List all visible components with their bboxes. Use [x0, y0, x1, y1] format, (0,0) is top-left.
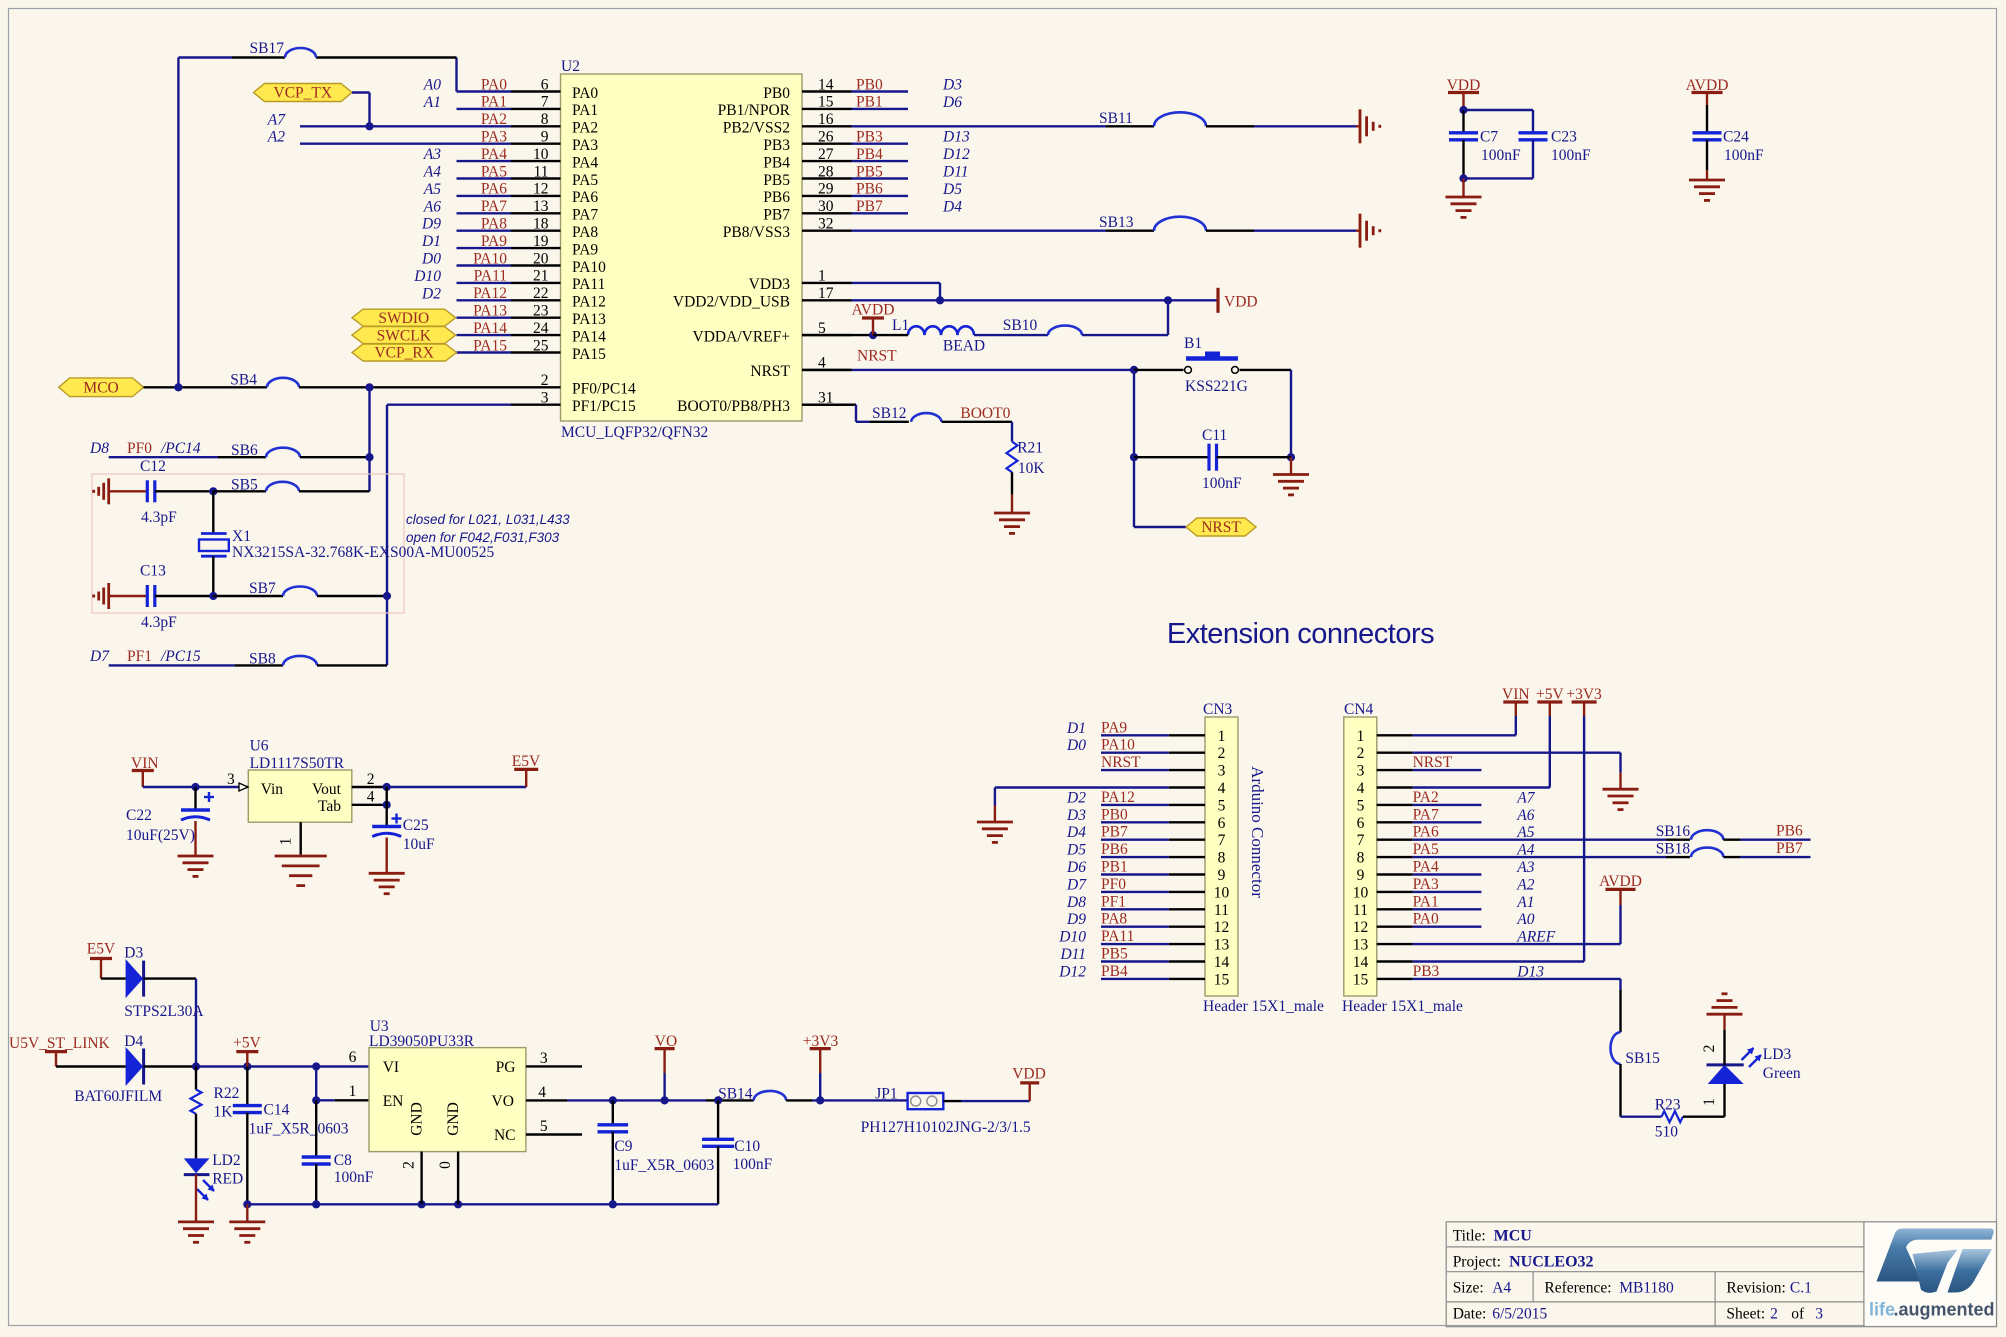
svg-text:+5V: +5V	[233, 1035, 261, 1052]
svg-text:PF0/PC14: PF0/PC14	[572, 381, 636, 398]
svg-text:PA8: PA8	[1101, 911, 1127, 928]
svg-text:100nF: 100nF	[733, 1156, 773, 1173]
svg-text:PA12: PA12	[572, 294, 606, 311]
svg-text:1: 1	[1218, 728, 1226, 745]
svg-text:LD1117S50TR: LD1117S50TR	[250, 755, 345, 772]
svg-text:Vin: Vin	[261, 781, 284, 798]
svg-text:10: 10	[533, 146, 549, 163]
svg-text:PA1: PA1	[572, 102, 598, 119]
svg-text:5: 5	[1357, 797, 1365, 814]
svg-text:4: 4	[1218, 780, 1226, 797]
svg-text:D9: D9	[421, 216, 441, 233]
svg-text:NRST: NRST	[1201, 519, 1241, 536]
svg-text:27: 27	[818, 146, 834, 163]
svg-text:Header 15X1_male: Header 15X1_male	[1203, 998, 1324, 1015]
svg-text:2: 2	[1357, 745, 1365, 762]
svg-text:D7: D7	[1066, 876, 1087, 893]
svg-text:D13: D13	[942, 129, 970, 146]
svg-text:Tab: Tab	[318, 798, 341, 815]
svg-text:1: 1	[1357, 728, 1365, 745]
svg-text:B1: B1	[1184, 335, 1202, 352]
svg-text:D6: D6	[942, 94, 962, 111]
svg-text:12: 12	[1353, 919, 1369, 936]
svg-text:PB4: PB4	[763, 154, 790, 171]
svg-text:SB14: SB14	[718, 1086, 753, 1103]
svg-text:8: 8	[541, 111, 549, 128]
svg-text:BOOT0/PB8/PH3: BOOT0/PB8/PH3	[677, 398, 790, 415]
svg-text:PB8/VSS3: PB8/VSS3	[723, 224, 790, 241]
svg-text:1uF_X5R_0603: 1uF_X5R_0603	[249, 1121, 349, 1138]
svg-text:VDD: VDD	[1224, 293, 1258, 310]
svg-text:100nF: 100nF	[1551, 147, 1591, 164]
svg-text:U2: U2	[561, 58, 580, 75]
svg-text:PA9: PA9	[1101, 719, 1127, 736]
svg-text:D4: D4	[942, 198, 962, 215]
svg-text:D5: D5	[1066, 842, 1086, 859]
svg-text:PA12: PA12	[1101, 789, 1135, 806]
svg-text:D10: D10	[413, 268, 441, 285]
svg-text:A4: A4	[423, 164, 441, 181]
svg-text:2: 2	[541, 372, 549, 389]
svg-text:PA8: PA8	[572, 224, 598, 241]
svg-text:PG: PG	[496, 1059, 516, 1076]
svg-text:PA11: PA11	[1101, 928, 1134, 945]
svg-text:PA10: PA10	[572, 259, 606, 276]
svg-text:BOOT0: BOOT0	[960, 405, 1010, 422]
svg-text:PA10: PA10	[1101, 737, 1135, 754]
svg-text:D1: D1	[1066, 720, 1086, 737]
svg-text:PA3: PA3	[572, 137, 598, 154]
svg-text:6: 6	[541, 76, 549, 93]
svg-text:Sheet:: Sheet:	[1726, 1306, 1765, 1323]
svg-text:E5V: E5V	[512, 753, 541, 770]
svg-text:E5V: E5V	[87, 941, 116, 958]
svg-text:PB3: PB3	[763, 137, 790, 154]
svg-text:PB0: PB0	[763, 85, 790, 102]
svg-text:30: 30	[818, 198, 834, 215]
svg-text:PA2: PA2	[572, 120, 598, 137]
svg-text:Header 15X1_male: Header 15X1_male	[1342, 998, 1463, 1015]
svg-text:Extension connectors: Extension connectors	[1167, 618, 1434, 650]
svg-text:12: 12	[533, 181, 549, 198]
svg-text:PB7: PB7	[1101, 824, 1128, 841]
svg-text:9: 9	[1218, 867, 1226, 884]
svg-text:AVDD: AVDD	[852, 302, 895, 319]
svg-text:SWCLK: SWCLK	[377, 327, 432, 344]
svg-text:D5: D5	[942, 181, 962, 198]
svg-text:CN3: CN3	[1203, 701, 1233, 718]
svg-text:9: 9	[541, 129, 549, 146]
svg-text:PA0: PA0	[572, 85, 598, 102]
svg-text:PA3: PA3	[1413, 876, 1439, 893]
svg-text:6: 6	[1357, 815, 1365, 832]
svg-text:15: 15	[818, 94, 834, 111]
svg-text:PA0: PA0	[1413, 911, 1439, 928]
svg-text:VI: VI	[383, 1059, 399, 1076]
svg-text:D9: D9	[1066, 911, 1086, 928]
svg-text:NUCLEO32: NUCLEO32	[1509, 1254, 1593, 1271]
svg-text:MB1180: MB1180	[1619, 1280, 1674, 1297]
svg-text:PA2: PA2	[1413, 789, 1439, 806]
svg-text:D2: D2	[1066, 789, 1086, 806]
svg-text:PB1/NPOR: PB1/NPOR	[718, 102, 791, 119]
svg-text:C10: C10	[734, 1138, 760, 1155]
svg-text:17: 17	[818, 285, 834, 302]
svg-text:6/5/2015: 6/5/2015	[1492, 1306, 1547, 1323]
svg-text:15: 15	[1214, 971, 1230, 988]
svg-text:2: 2	[1770, 1306, 1778, 1323]
svg-text:PB3: PB3	[1413, 963, 1440, 980]
svg-text:PA5: PA5	[1413, 841, 1439, 858]
svg-text:Reference:: Reference:	[1544, 1280, 1611, 1297]
svg-text:PA4: PA4	[1413, 859, 1439, 876]
svg-text:2: 2	[401, 1161, 418, 1169]
svg-text:D8: D8	[1066, 894, 1086, 911]
svg-text:VDD: VDD	[1012, 1066, 1046, 1083]
svg-text:100nF: 100nF	[1202, 475, 1242, 492]
svg-text:D3: D3	[942, 77, 962, 94]
svg-text:1uF_X5R_0603: 1uF_X5R_0603	[614, 1157, 714, 1174]
svg-text:PA7: PA7	[572, 207, 598, 224]
svg-text:PF1/PC15: PF1/PC15	[572, 398, 636, 415]
svg-text:VDDA/VREF+: VDDA/VREF+	[693, 328, 790, 345]
svg-text:PB6: PB6	[1776, 823, 1803, 840]
svg-text:D6: D6	[1066, 859, 1086, 876]
svg-text:3: 3	[540, 1050, 548, 1067]
svg-text:PA6: PA6	[572, 189, 598, 206]
svg-text:19: 19	[533, 233, 549, 250]
svg-text:SB10: SB10	[1003, 317, 1038, 334]
svg-text:A0: A0	[1516, 911, 1534, 928]
svg-text:PB7: PB7	[1776, 840, 1803, 857]
svg-text:Arduino Connector: Arduino Connector	[1248, 766, 1267, 898]
svg-text:NX3215SA-32.768K-EXS00A-MU0052: NX3215SA-32.768K-EXS00A-MU00525	[232, 544, 494, 561]
svg-text:18: 18	[533, 216, 549, 233]
svg-text:open for F042,F031,F303: open for F042,F031,F303	[406, 530, 560, 545]
svg-text:510: 510	[1655, 1124, 1679, 1141]
svg-text:D3: D3	[124, 945, 143, 962]
svg-text:NRST: NRST	[1413, 754, 1453, 771]
svg-text:MCU: MCU	[1494, 1228, 1533, 1245]
svg-text:Size:: Size:	[1453, 1280, 1484, 1297]
svg-text:4.3pF: 4.3pF	[141, 614, 177, 631]
svg-text:SWDIO: SWDIO	[378, 310, 429, 327]
svg-text:SB17: SB17	[250, 40, 285, 57]
svg-text:VO: VO	[492, 1093, 514, 1110]
svg-text:closed for L021, L031,L433: closed for L021, L031,L433	[406, 512, 570, 527]
svg-text:10uF: 10uF	[403, 836, 435, 853]
svg-text:VCP_TX: VCP_TX	[274, 85, 333, 102]
svg-text:A1: A1	[423, 94, 441, 111]
svg-text:C.1: C.1	[1790, 1280, 1812, 1297]
svg-text:R21: R21	[1017, 440, 1043, 457]
svg-text:U5V_ST_LINK: U5V_ST_LINK	[9, 1035, 111, 1052]
svg-text:D12: D12	[942, 146, 970, 163]
svg-text:A6: A6	[1516, 807, 1534, 824]
svg-text:22: 22	[533, 285, 549, 302]
svg-text:AVDD: AVDD	[1599, 873, 1642, 890]
svg-text:C7: C7	[1480, 129, 1498, 146]
svg-text:NC: NC	[494, 1127, 516, 1144]
svg-text:A2: A2	[267, 129, 285, 146]
svg-text:Date:: Date:	[1453, 1306, 1487, 1323]
svg-text:of: of	[1791, 1306, 1805, 1323]
svg-text:augmented: augmented	[1899, 1300, 1995, 1320]
svg-text:R23: R23	[1655, 1097, 1681, 1114]
svg-text:C25: C25	[403, 817, 429, 834]
svg-text:D4: D4	[1066, 824, 1086, 841]
svg-text:PF1: PF1	[127, 648, 152, 665]
svg-text:PB5: PB5	[763, 172, 790, 189]
svg-text:15: 15	[1353, 971, 1369, 988]
svg-text:3: 3	[1218, 763, 1226, 780]
svg-text:LD3: LD3	[1763, 1046, 1792, 1063]
svg-text:PA7: PA7	[1413, 806, 1439, 823]
svg-text:14: 14	[818, 76, 834, 93]
svg-text:GND: GND	[409, 1102, 426, 1136]
svg-text:PH127H10102JNG-2/3/1.5: PH127H10102JNG-2/3/1.5	[861, 1119, 1031, 1136]
svg-text:3: 3	[541, 390, 549, 407]
svg-text:14: 14	[1353, 954, 1369, 971]
svg-text:A7: A7	[1516, 789, 1535, 806]
svg-text:D0: D0	[421, 251, 441, 268]
svg-text:100nF: 100nF	[334, 1169, 374, 1186]
svg-text:PF0: PF0	[127, 440, 152, 457]
svg-text:10K: 10K	[1018, 460, 1046, 477]
svg-text:D8: D8	[89, 440, 109, 457]
svg-text:4: 4	[367, 789, 375, 806]
svg-text:GND: GND	[445, 1102, 462, 1136]
svg-text:PA5: PA5	[572, 172, 598, 189]
svg-text:A5: A5	[423, 181, 441, 198]
svg-text:BAT60JFILM: BAT60JFILM	[74, 1088, 162, 1105]
svg-text:PF1: PF1	[1101, 893, 1126, 910]
svg-text:5: 5	[1218, 797, 1226, 814]
svg-text:SB7: SB7	[249, 580, 276, 597]
svg-text:PB6: PB6	[1101, 841, 1128, 858]
svg-text:3: 3	[1357, 763, 1365, 780]
svg-text:11: 11	[1214, 902, 1229, 919]
svg-text:D11: D11	[942, 164, 969, 181]
svg-text:VCP_RX: VCP_RX	[374, 345, 433, 362]
svg-text:1: 1	[278, 838, 295, 846]
svg-text:Vout: Vout	[312, 781, 342, 798]
svg-text:A3: A3	[423, 146, 441, 163]
svg-text:26: 26	[818, 129, 834, 146]
svg-text:23: 23	[533, 303, 549, 320]
svg-text:PA1: PA1	[1413, 893, 1439, 910]
svg-text:PB1: PB1	[1101, 859, 1128, 876]
svg-text:28: 28	[818, 163, 834, 180]
svg-text:20: 20	[533, 250, 549, 267]
svg-text:C24: C24	[1723, 129, 1749, 146]
svg-text:12: 12	[1214, 919, 1230, 936]
svg-text:13: 13	[533, 198, 549, 215]
svg-text:LD39050PU33R: LD39050PU33R	[369, 1033, 475, 1050]
svg-text:X1: X1	[232, 528, 251, 545]
svg-text:3: 3	[1815, 1306, 1823, 1323]
svg-text:11: 11	[1353, 902, 1368, 919]
svg-text:1: 1	[349, 1083, 357, 1100]
svg-text:PB7: PB7	[763, 207, 790, 224]
svg-text:6: 6	[349, 1049, 357, 1066]
svg-text:SB11: SB11	[1099, 110, 1133, 127]
svg-text:C12: C12	[140, 458, 166, 475]
svg-text:D10: D10	[1058, 929, 1086, 946]
svg-text:L1: L1	[892, 317, 909, 334]
svg-text:Project:: Project:	[1453, 1254, 1501, 1271]
svg-text:Revision:: Revision:	[1726, 1280, 1785, 1297]
svg-text:D1: D1	[421, 233, 441, 250]
svg-text:8: 8	[1357, 850, 1365, 867]
svg-text:JP1: JP1	[875, 1086, 897, 1103]
svg-text:PA15: PA15	[572, 346, 606, 363]
svg-text:EN: EN	[383, 1093, 404, 1110]
svg-text:R22: R22	[214, 1085, 240, 1102]
svg-text:SB15: SB15	[1625, 1050, 1660, 1067]
svg-text:32: 32	[818, 216, 834, 233]
svg-text:KSS221G: KSS221G	[1185, 378, 1248, 395]
svg-text:2: 2	[1701, 1045, 1718, 1053]
svg-text:A7: A7	[267, 111, 286, 128]
svg-text:PF0: PF0	[1101, 876, 1126, 893]
svg-text:16: 16	[818, 111, 834, 128]
svg-text:C11: C11	[1202, 427, 1227, 444]
svg-text:NRST: NRST	[1101, 754, 1141, 771]
svg-text:4: 4	[538, 1084, 546, 1101]
svg-text:100nF: 100nF	[1724, 147, 1764, 164]
svg-text:2: 2	[367, 771, 375, 788]
svg-text:PA11: PA11	[572, 276, 605, 293]
svg-text:D2: D2	[421, 285, 441, 302]
svg-text:RED: RED	[212, 1171, 243, 1188]
svg-text:25: 25	[533, 337, 549, 354]
svg-text:PA13: PA13	[572, 311, 606, 328]
svg-text:PA6: PA6	[1413, 824, 1439, 841]
svg-text:D11: D11	[1059, 946, 1086, 963]
svg-text:29: 29	[818, 181, 834, 198]
svg-text:D12: D12	[1058, 963, 1086, 980]
svg-text:/PC14: /PC14	[160, 440, 201, 457]
svg-text:10: 10	[1214, 884, 1230, 901]
svg-text:6: 6	[1218, 815, 1226, 832]
svg-text:9: 9	[1357, 867, 1365, 884]
svg-text:MCU_LQFP32/QFN32: MCU_LQFP32/QFN32	[561, 424, 708, 441]
svg-text:life: life	[1869, 1300, 1895, 1320]
svg-text:SB16: SB16	[1656, 823, 1691, 840]
svg-text:C23: C23	[1551, 129, 1577, 146]
svg-text:NRST: NRST	[750, 363, 790, 380]
svg-text:PB6: PB6	[763, 189, 790, 206]
svg-text:7: 7	[541, 94, 549, 111]
svg-text:A0: A0	[423, 77, 441, 94]
svg-text:SB12: SB12	[872, 405, 906, 422]
svg-text:PB0: PB0	[1101, 806, 1128, 823]
svg-text:1: 1	[818, 268, 826, 285]
svg-text:SB18: SB18	[1656, 841, 1691, 858]
svg-text:7: 7	[1357, 832, 1365, 849]
svg-text:PB2/VSS2: PB2/VSS2	[723, 120, 790, 137]
svg-text:7: 7	[1218, 832, 1226, 849]
svg-text:PA4: PA4	[572, 154, 598, 171]
svg-text:D7: D7	[89, 648, 110, 665]
svg-text:A2: A2	[1516, 876, 1534, 893]
svg-text:SB4: SB4	[230, 371, 257, 388]
svg-text:CN4: CN4	[1344, 701, 1374, 718]
svg-text:STPS2L30A: STPS2L30A	[124, 1003, 204, 1020]
svg-text:C22: C22	[126, 807, 152, 824]
svg-text:4.3pF: 4.3pF	[141, 509, 177, 526]
svg-text:VDD3: VDD3	[749, 276, 791, 293]
svg-text:C9: C9	[614, 1138, 632, 1155]
svg-text:D0: D0	[1066, 737, 1086, 754]
svg-text:11: 11	[534, 163, 549, 180]
svg-text:24: 24	[533, 320, 549, 337]
svg-text:A1: A1	[1516, 894, 1534, 911]
svg-text:13: 13	[1353, 937, 1369, 954]
svg-text:PB5: PB5	[1101, 946, 1128, 963]
svg-text:PA9: PA9	[572, 241, 598, 258]
svg-text:13: 13	[1214, 937, 1230, 954]
svg-text:A6: A6	[423, 198, 441, 215]
svg-text:1K: 1K	[214, 1104, 234, 1121]
svg-text:/PC15: /PC15	[160, 648, 201, 665]
svg-text:100nF: 100nF	[1481, 147, 1521, 164]
svg-text:Green: Green	[1763, 1065, 1801, 1082]
svg-text:C8: C8	[334, 1152, 352, 1169]
svg-text:A4: A4	[1492, 1280, 1511, 1297]
svg-text:Title:: Title:	[1453, 1228, 1486, 1245]
svg-text:10: 10	[1353, 884, 1369, 901]
svg-text:1: 1	[1701, 1098, 1718, 1106]
svg-text:LD2: LD2	[212, 1152, 240, 1169]
svg-text:C14: C14	[264, 1102, 290, 1119]
svg-text:5: 5	[540, 1118, 548, 1135]
svg-text:NRST: NRST	[857, 347, 897, 364]
svg-text:8: 8	[1218, 850, 1226, 867]
svg-text:BEAD: BEAD	[943, 338, 985, 355]
svg-text:A3: A3	[1516, 859, 1534, 876]
svg-text:D3: D3	[1066, 807, 1086, 824]
svg-text:14: 14	[1214, 954, 1230, 971]
svg-text:4: 4	[1357, 780, 1365, 797]
svg-text:PA14: PA14	[572, 328, 606, 345]
svg-text:3: 3	[227, 771, 235, 788]
svg-text:21: 21	[533, 268, 549, 285]
svg-text:D4: D4	[124, 1033, 143, 1050]
svg-text:0: 0	[437, 1161, 454, 1169]
svg-text:U6: U6	[250, 738, 269, 755]
svg-text:2: 2	[1218, 745, 1226, 762]
svg-text:C13: C13	[140, 563, 166, 580]
svg-text:PB4: PB4	[1101, 963, 1128, 980]
svg-text:VDD2/VDD_USB: VDD2/VDD_USB	[673, 294, 790, 311]
svg-text:SB13: SB13	[1099, 214, 1134, 231]
svg-text:MCO: MCO	[83, 380, 118, 397]
svg-text:10uF(25V): 10uF(25V)	[126, 827, 195, 844]
